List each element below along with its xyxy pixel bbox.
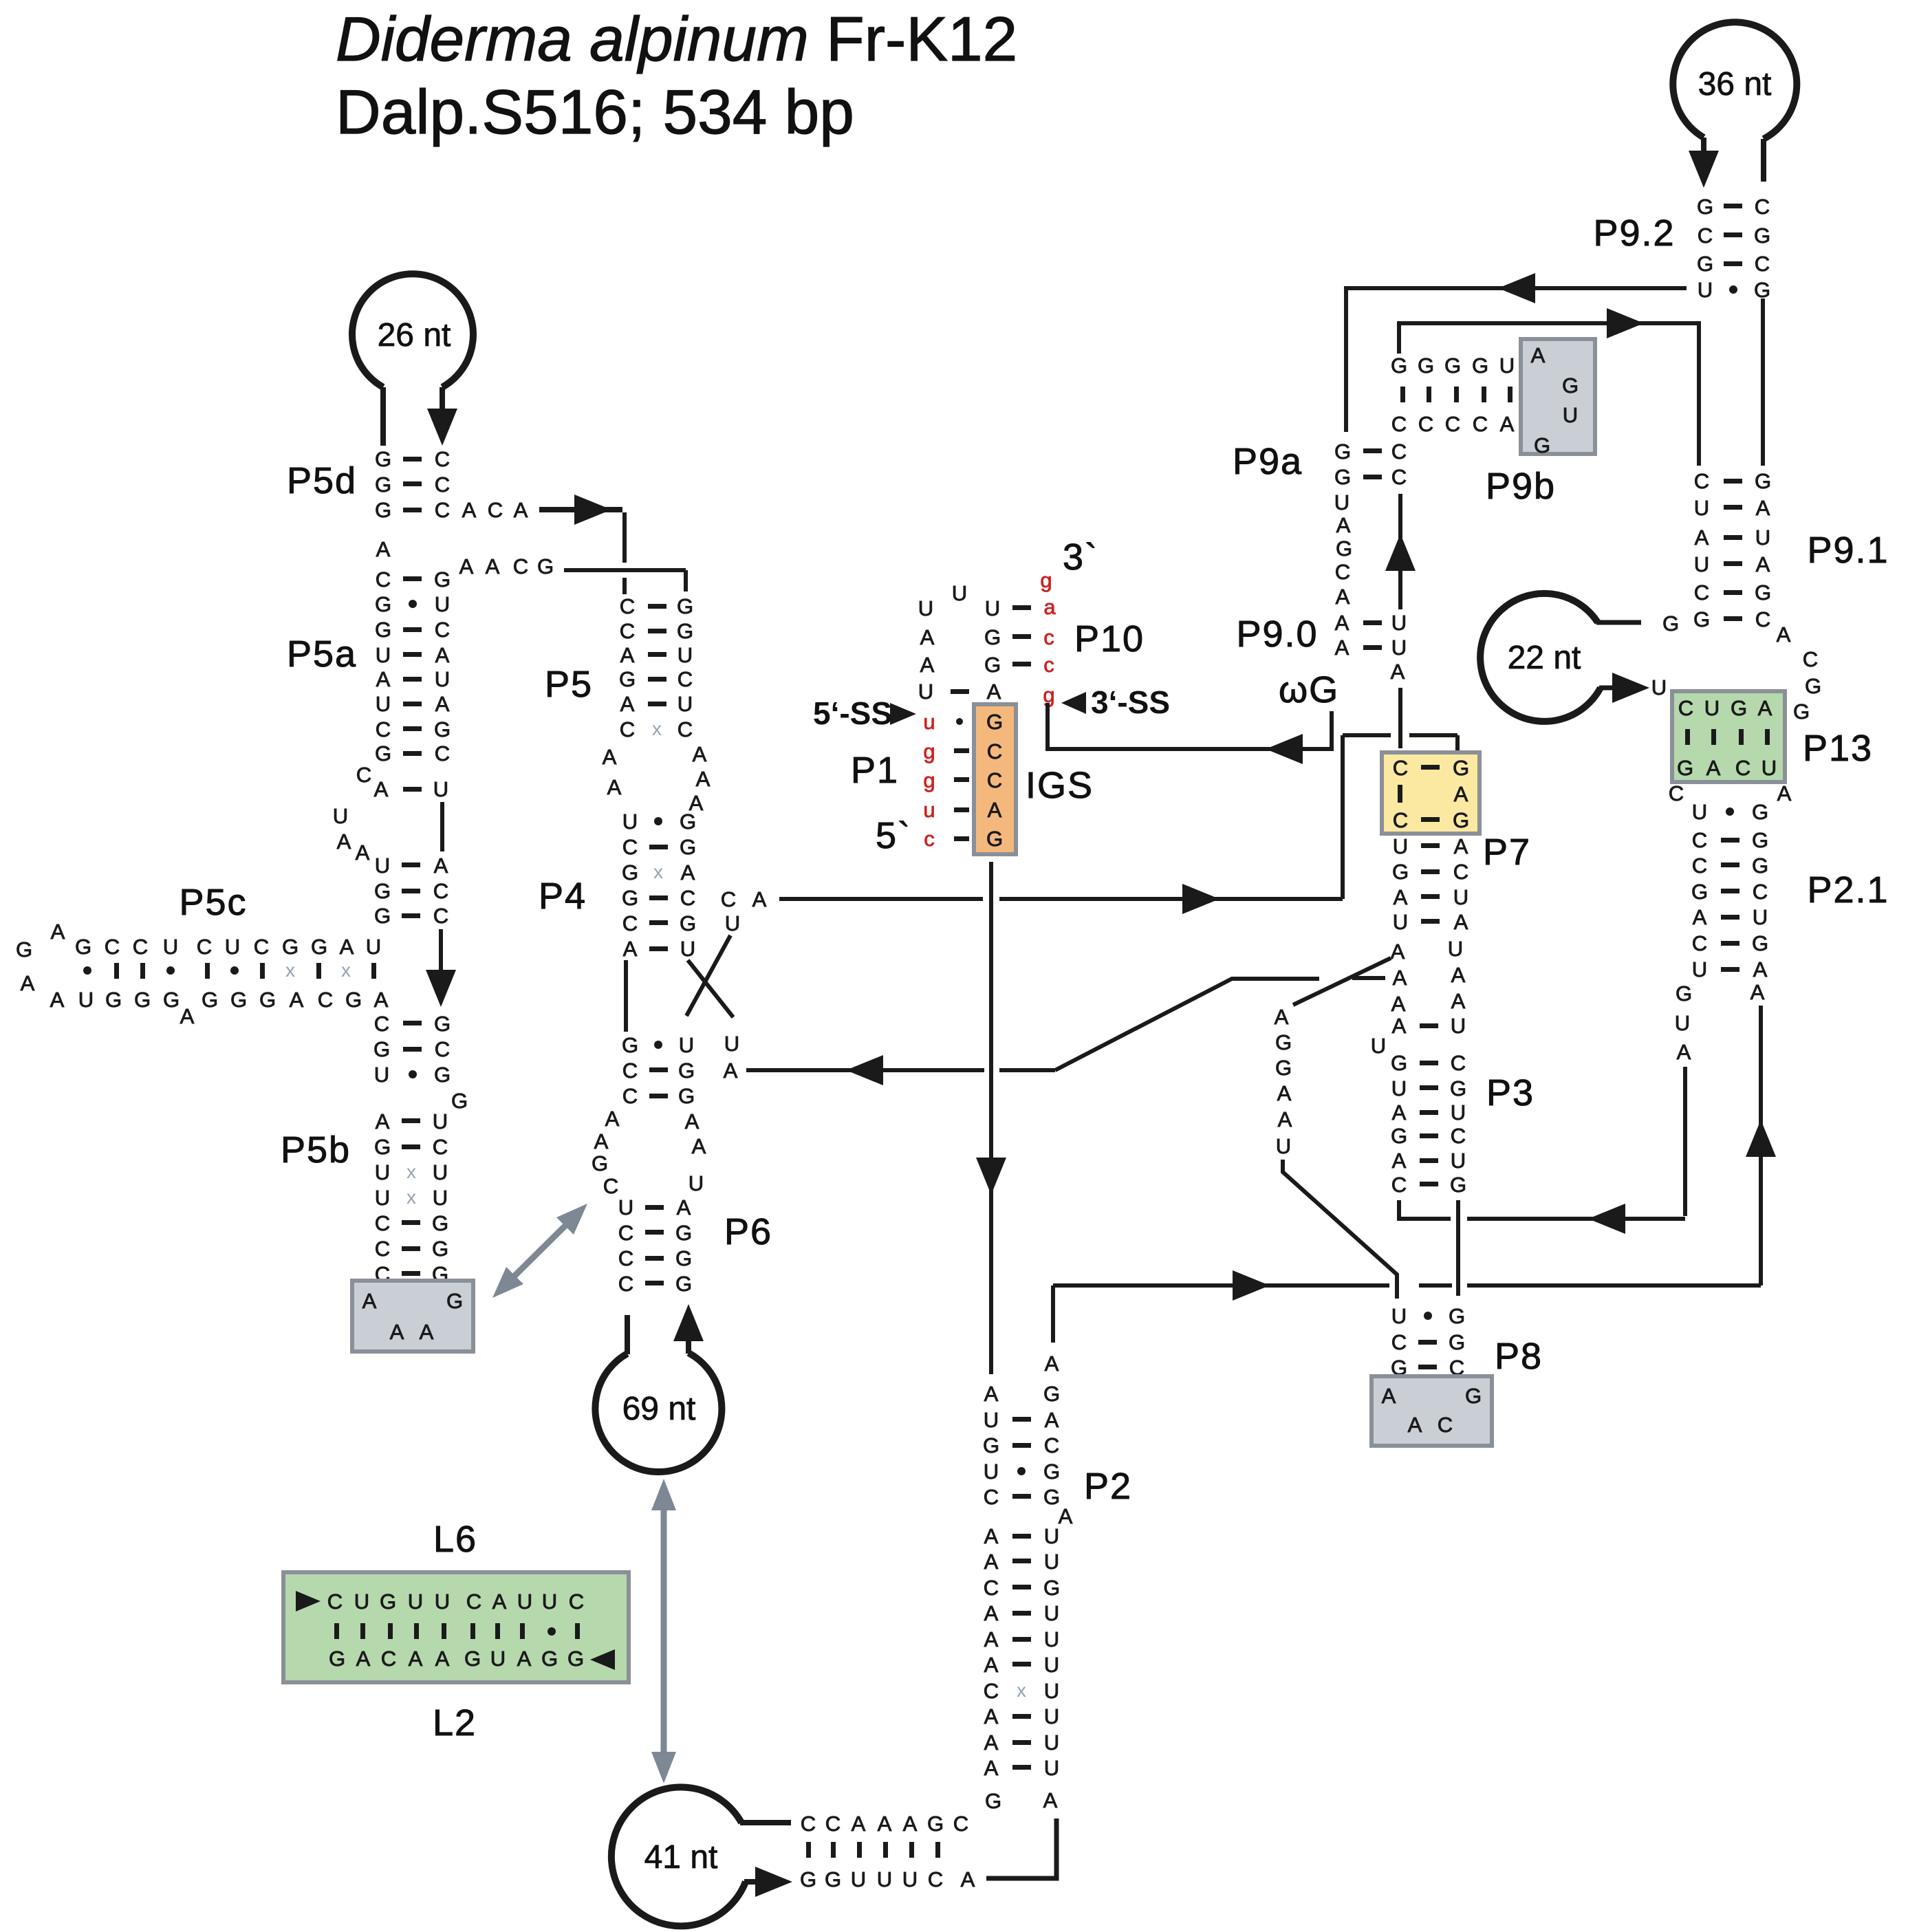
svg-text:A: A bbox=[1392, 1149, 1407, 1173]
svg-text:G: G bbox=[373, 1037, 390, 1061]
loop 26 nt bbox=[352, 274, 473, 387]
svg-text:A: A bbox=[1758, 696, 1773, 720]
svg-text:C: C bbox=[435, 473, 450, 497]
wire cascade U down to P8 bbox=[1283, 1160, 1397, 1299]
wire AACG to P5 right strand bbox=[564, 568, 686, 572]
svg-text:x: x bbox=[285, 959, 295, 981]
svg-text:a: a bbox=[1043, 595, 1056, 619]
svg-text:G: G bbox=[677, 594, 693, 618]
svg-text:A: A bbox=[1753, 957, 1768, 981]
svg-text:G: G bbox=[105, 988, 122, 1012]
svg-text:P9a: P9a bbox=[1233, 441, 1303, 482]
svg-text:A: A bbox=[920, 625, 935, 649]
green box top strand CUGUUCAUUC bbox=[327, 1589, 584, 1614]
svg-text:C: C bbox=[1753, 880, 1768, 904]
svg-text:U: U bbox=[1044, 1601, 1059, 1625]
svg-text:U: U bbox=[517, 1589, 532, 1614]
svg-text:U: U bbox=[1276, 1134, 1291, 1158]
svg-text:A: A bbox=[693, 742, 707, 766]
svg-text:U: U bbox=[1499, 354, 1515, 378]
wire P3 right strand down to P8 bbox=[1456, 1200, 1460, 1296]
svg-text:G: G bbox=[432, 1211, 448, 1235]
svg-text:G: G bbox=[986, 827, 1003, 851]
svg-text:G: G bbox=[619, 667, 636, 691]
svg-text:x: x bbox=[1017, 1680, 1026, 1701]
svg-text:C: C bbox=[1698, 224, 1713, 248]
svg-text:A: A bbox=[1336, 585, 1350, 609]
svg-text:C: C bbox=[381, 1647, 396, 1671]
svg-text:G: G bbox=[375, 498, 391, 522]
svg-text:C: C bbox=[825, 1812, 841, 1836]
svg-text:G: G bbox=[1336, 536, 1352, 561]
svg-text:A: A bbox=[356, 840, 370, 865]
svg-text:G: G bbox=[434, 717, 451, 741]
wire P9b to P9.1 bbox=[1399, 323, 1699, 466]
svg-text:C: C bbox=[618, 1221, 633, 1245]
svg-text:c: c bbox=[1043, 625, 1054, 649]
svg-text:A: A bbox=[517, 1647, 532, 1671]
small arrow in green box bbox=[296, 1591, 321, 1611]
svg-text:G: G bbox=[1677, 756, 1693, 780]
helix P4 lower bbox=[622, 1033, 695, 1108]
svg-text:G: G bbox=[1444, 354, 1461, 378]
svg-text:G: G bbox=[16, 937, 32, 962]
svg-text:A: A bbox=[420, 1320, 434, 1344]
svg-text:C: C bbox=[318, 988, 333, 1012]
svg-text:C: C bbox=[984, 1679, 999, 1703]
green box P13 bbox=[1672, 691, 1785, 782]
svg-text:P9b: P9b bbox=[1486, 466, 1556, 507]
helix P9b bottom strand CCCCA bbox=[1391, 412, 1515, 436]
helix P2 bbox=[983, 1408, 1060, 1509]
svg-text:U: U bbox=[1675, 1011, 1690, 1035]
svg-text:C: C bbox=[1391, 412, 1407, 436]
svg-text:U: U bbox=[375, 854, 390, 878]
svg-text:G: G bbox=[675, 1221, 692, 1245]
helix P5b lower bbox=[374, 1109, 448, 1286]
svg-text:G: G bbox=[464, 1647, 481, 1671]
svg-text:C: C bbox=[1803, 647, 1818, 671]
helix P5c horizontal top strand bbox=[75, 935, 381, 959]
svg-text:C: C bbox=[466, 1589, 481, 1614]
svg-text:A: A bbox=[492, 1589, 507, 1614]
svg-text:U: U bbox=[851, 1867, 866, 1891]
svg-text:A: A bbox=[961, 1867, 975, 1891]
svg-text:C: C bbox=[133, 935, 148, 959]
helix P4 bbox=[622, 810, 696, 961]
svg-text:U: U bbox=[376, 692, 391, 716]
svg-text:U: U bbox=[918, 596, 933, 620]
svg-text:A: A bbox=[984, 1730, 999, 1755]
svg-text:U: U bbox=[677, 643, 693, 667]
svg-text:G: G bbox=[374, 879, 391, 903]
svg-text:A: A bbox=[1454, 910, 1468, 934]
svg-text:U: U bbox=[376, 643, 391, 667]
svg-text:U: U bbox=[1044, 1730, 1059, 1755]
orange box IGS bbox=[974, 704, 1016, 854]
svg-text:C: C bbox=[376, 567, 391, 591]
loop 41 nt bbox=[611, 1787, 746, 1926]
svg-text:C: C bbox=[721, 887, 736, 911]
wire diagonal cascade-A to P3 top bbox=[1293, 958, 1391, 1005]
svg-text:A: A bbox=[1451, 989, 1466, 1013]
neck bottom arrow 22nt to U bbox=[1599, 686, 1618, 691]
svg-text:A: A bbox=[376, 667, 391, 691]
svg-text:G: G bbox=[1472, 354, 1488, 378]
svg-text:G: G bbox=[1697, 195, 1713, 219]
svg-text:U: U bbox=[433, 777, 448, 801]
svg-text:A: A bbox=[374, 777, 389, 801]
helix P5a lower bbox=[374, 854, 448, 928]
svg-text:G: G bbox=[1450, 1076, 1466, 1100]
svg-text:A: A bbox=[1695, 525, 1709, 550]
svg-text:U: U bbox=[375, 1160, 390, 1184]
helix P5 bbox=[619, 594, 693, 741]
svg-text:A: A bbox=[1391, 660, 1405, 684]
svg-text:69 nt: 69 nt bbox=[622, 1391, 696, 1427]
svg-text:3`: 3` bbox=[1063, 536, 1098, 578]
svg-text:A: A bbox=[435, 692, 450, 716]
svg-text:U: U bbox=[1391, 1304, 1407, 1328]
svg-text:A: A bbox=[340, 935, 354, 959]
svg-text:G: G bbox=[134, 988, 151, 1012]
svg-text:5‘-SS: 5‘-SS bbox=[813, 695, 892, 731]
wire P9.2 arrow to P9a bbox=[1346, 288, 1687, 432]
svg-text:U: U bbox=[163, 935, 178, 959]
helix P9a bbox=[1334, 439, 1407, 489]
svg-text:C: C bbox=[433, 904, 448, 928]
svg-text:A: A bbox=[1531, 343, 1546, 367]
svg-text:C: C bbox=[375, 1237, 390, 1261]
svg-text:A: A bbox=[692, 1134, 706, 1158]
svg-text:G: G bbox=[592, 1151, 608, 1175]
wire P4 CA to yellow box P7 bbox=[779, 897, 983, 901]
svg-text:G: G bbox=[825, 1867, 841, 1891]
svg-text:G: G bbox=[1693, 607, 1710, 631]
svg-text:A: A bbox=[376, 537, 391, 561]
svg-text:U: U bbox=[952, 581, 967, 605]
helix P2 lower bbox=[984, 1524, 1060, 1780]
svg-text:G: G bbox=[1676, 981, 1692, 1006]
wire P9.2 right strand down to P9.1 bbox=[1761, 299, 1765, 466]
helix P9.2 bbox=[1697, 195, 1770, 302]
svg-text:A: A bbox=[696, 767, 711, 791]
svg-text:C: C bbox=[677, 717, 693, 741]
svg-text:U: U bbox=[1044, 1704, 1059, 1728]
svg-text:A: A bbox=[1043, 1788, 1058, 1812]
svg-text:C: C bbox=[1044, 1433, 1059, 1457]
svg-text:G: G bbox=[1450, 1173, 1466, 1197]
svg-text:A: A bbox=[752, 887, 767, 911]
svg-text:5`: 5` bbox=[876, 815, 911, 856]
svg-text:U: U bbox=[1704, 696, 1720, 720]
svg-text:G: G bbox=[1453, 756, 1469, 780]
helix P5d bbox=[375, 447, 450, 522]
helix P5b upper bbox=[373, 1012, 451, 1087]
neck top line 41nt bbox=[740, 1820, 791, 1825]
svg-text:P2.1: P2.1 bbox=[1807, 869, 1889, 911]
svg-text:G: G bbox=[1334, 465, 1351, 489]
wire right strand P5a internal bbox=[440, 802, 444, 851]
svg-text:A: A bbox=[605, 1107, 620, 1131]
green box bottom strand GACAAGUAGG bbox=[329, 1647, 584, 1671]
svg-text:A: A bbox=[984, 1653, 999, 1677]
svg-text:g: g bbox=[923, 768, 935, 792]
svg-text:G: G bbox=[434, 1012, 451, 1036]
helix P3 bbox=[1391, 1014, 1466, 1197]
svg-text:A: A bbox=[435, 643, 450, 667]
svg-text:A: A bbox=[984, 1704, 999, 1728]
svg-text:x: x bbox=[406, 1186, 416, 1208]
svg-text:C: C bbox=[1755, 252, 1770, 276]
svg-text:U: U bbox=[689, 1171, 704, 1195]
svg-text:A: A bbox=[1394, 885, 1408, 909]
svg-text:G: G bbox=[75, 935, 91, 959]
svg-text:U: U bbox=[679, 1033, 694, 1057]
wire P4 A to P3 via diagonal bbox=[746, 1068, 984, 1072]
svg-text:A: A bbox=[390, 1320, 404, 1344]
svg-text:26 nt: 26 nt bbox=[378, 317, 451, 354]
svg-text:U: U bbox=[677, 692, 693, 716]
svg-text:G: G bbox=[1391, 1124, 1407, 1148]
svg-text:G: G bbox=[1755, 580, 1771, 605]
svg-text:A: A bbox=[1392, 1100, 1407, 1125]
svg-text:x: x bbox=[406, 1161, 416, 1182]
green box L6-L2 pairing bbox=[283, 1572, 629, 1682]
svg-text:C: C bbox=[435, 1037, 450, 1061]
svg-text:A: A bbox=[1392, 1014, 1407, 1038]
svg-text:A: A bbox=[376, 1109, 390, 1133]
svg-text:P9.1: P9.1 bbox=[1807, 530, 1889, 571]
svg-text:G: G bbox=[1754, 224, 1770, 248]
svg-text:G: G bbox=[1534, 433, 1550, 457]
svg-text:A: A bbox=[1391, 940, 1405, 964]
svg-text:C: C bbox=[1391, 1173, 1407, 1197]
svg-text:U: U bbox=[902, 1867, 918, 1891]
svg-text:x: x bbox=[652, 718, 662, 739]
svg-text:A: A bbox=[603, 745, 617, 769]
svg-text:U: U bbox=[618, 1195, 633, 1219]
svg-text:A: A bbox=[1756, 496, 1770, 520]
svg-text:G: G bbox=[680, 810, 696, 834]
svg-text:P2: P2 bbox=[1084, 1466, 1132, 1507]
svg-text:A: A bbox=[1278, 1107, 1292, 1131]
svg-text:A: A bbox=[51, 920, 65, 944]
svg-text:A: A bbox=[852, 1812, 866, 1836]
wire CACA arrow to P5 bbox=[539, 507, 622, 512]
svg-text:C: C bbox=[374, 1012, 389, 1036]
svg-text:U: U bbox=[1563, 403, 1578, 427]
helix P9b top strand GGGGU bbox=[1391, 354, 1515, 378]
svg-text:A: A bbox=[1391, 992, 1406, 1016]
svg-text:C: C bbox=[435, 498, 450, 522]
wire P2.1 left strand down to arrow line bbox=[1683, 1067, 1687, 1216]
svg-text:A: A bbox=[878, 1812, 892, 1836]
svg-text:U: U bbox=[1334, 490, 1349, 514]
svg-text:G: G bbox=[375, 618, 391, 642]
svg-text:Diderma alpinum Fr-K12: Diderma alpinum Fr-K12 bbox=[336, 5, 1017, 74]
svg-text:U: U bbox=[435, 1589, 450, 1614]
svg-text:G: G bbox=[986, 710, 1003, 734]
svg-text:C: C bbox=[680, 886, 695, 910]
svg-text:C: C bbox=[376, 717, 391, 741]
svg-text:C: C bbox=[622, 1084, 638, 1108]
svg-text:U: U bbox=[1044, 1679, 1059, 1703]
svg-text:C: C bbox=[197, 935, 212, 959]
svg-text:G: G bbox=[1391, 354, 1407, 378]
svg-text:U: U bbox=[1692, 957, 1707, 981]
svg-text:G: G bbox=[1752, 931, 1768, 955]
svg-text:G: G bbox=[1275, 1030, 1292, 1054]
svg-text:G: G bbox=[202, 988, 218, 1012]
svg-text:C: C bbox=[1694, 580, 1709, 605]
wire A into yellow box bbox=[1398, 688, 1402, 748]
svg-text:G: G bbox=[984, 625, 1001, 649]
svg-text:C: C bbox=[622, 835, 638, 859]
svg-text:U: U bbox=[1393, 910, 1408, 934]
wire arrow down into P5b bbox=[439, 929, 443, 999]
svg-text:A: A bbox=[984, 1756, 999, 1780]
helix P2 base bottom strand GGUUUCA bbox=[800, 1867, 975, 1891]
leg right of 26nt loop with arrow bbox=[440, 387, 445, 413]
svg-text:G: G bbox=[1752, 854, 1768, 878]
helix P2 base top strand CCAAAGC bbox=[801, 1812, 968, 1836]
svg-text:U: U bbox=[1391, 611, 1407, 635]
svg-text:C: C bbox=[620, 594, 635, 618]
svg-text:U: U bbox=[1044, 1756, 1059, 1780]
P13 bottom strand GACU bbox=[1677, 756, 1777, 780]
svg-text:U: U bbox=[1692, 800, 1707, 824]
svg-text:C: C bbox=[1418, 412, 1433, 436]
svg-text:A: A bbox=[374, 988, 389, 1012]
svg-text:P5d: P5d bbox=[287, 460, 357, 501]
svg-text:C: C bbox=[435, 618, 450, 642]
svg-text:G: G bbox=[282, 935, 299, 959]
svg-text:U: U bbox=[1453, 885, 1468, 909]
svg-text:C: C bbox=[1391, 465, 1407, 489]
gray box P9b loop AGUG bbox=[1521, 339, 1595, 454]
svg-text:P6: P6 bbox=[724, 1211, 772, 1252]
svg-text:C: C bbox=[1393, 756, 1408, 780]
svg-text:P13: P13 bbox=[1803, 728, 1873, 769]
yellow box P7 conserved pair bbox=[1382, 752, 1479, 834]
gray double arrow 69nt to 41nt bbox=[661, 1499, 667, 1763]
svg-text:A: A bbox=[984, 1382, 999, 1406]
svg-text:U: U bbox=[1694, 496, 1709, 520]
helix P6 bbox=[618, 1195, 692, 1296]
svg-text:P9.2: P9.2 bbox=[1593, 213, 1675, 254]
svg-text:A: A bbox=[987, 680, 1001, 704]
svg-text:G: G bbox=[1043, 1459, 1060, 1484]
svg-text:U: U bbox=[984, 1459, 999, 1484]
svg-text:22 nt: 22 nt bbox=[1508, 640, 1581, 676]
svg-text:C: C bbox=[327, 1589, 343, 1614]
svg-text:36 nt: 36 nt bbox=[1698, 66, 1772, 102]
svg-text:A: A bbox=[1706, 756, 1721, 780]
svg-text:A: A bbox=[1335, 636, 1349, 660]
svg-text:A: A bbox=[681, 860, 695, 884]
svg-text:C: C bbox=[1694, 469, 1709, 493]
svg-text:G: G bbox=[375, 473, 391, 497]
svg-text:L2: L2 bbox=[433, 1702, 477, 1744]
svg-text:C: C bbox=[1692, 931, 1707, 955]
svg-text:G: G bbox=[1392, 860, 1409, 884]
svg-text:C: C bbox=[1678, 696, 1693, 720]
svg-text:x: x bbox=[653, 861, 663, 882]
svg-text:C: C bbox=[254, 935, 269, 959]
helix P5a bbox=[375, 567, 451, 766]
svg-text:U: U bbox=[435, 592, 450, 616]
svg-text:U: U bbox=[680, 937, 695, 961]
svg-text:A: A bbox=[337, 829, 351, 854]
helix P5c bonds bbox=[83, 959, 376, 981]
svg-text:A: A bbox=[903, 1812, 918, 1836]
svg-text:A: A bbox=[984, 1524, 999, 1548]
wire P9.0 right strand up arrow bbox=[1398, 494, 1402, 609]
svg-text:G: G bbox=[1752, 828, 1768, 852]
svg-text:P3: P3 bbox=[1486, 1072, 1535, 1114]
svg-text:G: G bbox=[678, 1084, 695, 1108]
svg-text:C: C bbox=[618, 1246, 633, 1270]
svg-text:A: A bbox=[685, 1109, 700, 1133]
small left arrow in green box bbox=[590, 1649, 615, 1670]
svg-text:A: A bbox=[180, 1004, 195, 1028]
svg-text:U: U bbox=[1698, 278, 1713, 302]
svg-text:A: A bbox=[620, 692, 635, 716]
svg-text:G: G bbox=[1449, 1330, 1465, 1354]
svg-text:A: A bbox=[459, 554, 474, 578]
svg-text:U: U bbox=[985, 596, 1000, 620]
svg-text:A: A bbox=[50, 988, 65, 1012]
svg-text:C: C bbox=[622, 1059, 638, 1083]
svg-text:C: C bbox=[622, 911, 638, 935]
svg-text:C: C bbox=[987, 768, 1002, 792]
svg-text:U: U bbox=[1755, 525, 1770, 550]
svg-text:C: C bbox=[1735, 756, 1750, 780]
svg-text:C: C bbox=[1755, 607, 1770, 631]
svg-text:P5b: P5b bbox=[281, 1129, 351, 1171]
svg-text:c: c bbox=[924, 827, 935, 851]
svg-text:U: U bbox=[1044, 1524, 1059, 1548]
svg-text:A: A bbox=[1045, 1408, 1059, 1432]
svg-text:G: G bbox=[675, 1246, 692, 1270]
svg-text:U: U bbox=[1391, 1076, 1407, 1100]
svg-text:A: A bbox=[409, 1647, 423, 1671]
svg-text:U: U bbox=[375, 1186, 390, 1210]
svg-text:P5c: P5c bbox=[179, 882, 247, 923]
svg-text:G: G bbox=[311, 935, 327, 959]
svg-text:G: G bbox=[345, 988, 362, 1012]
svg-text:P8: P8 bbox=[1495, 1336, 1543, 1377]
svg-text:U: U bbox=[724, 1032, 739, 1056]
svg-text:G: G bbox=[1562, 373, 1579, 398]
svg-text:G: G bbox=[1755, 469, 1771, 493]
svg-text:P7: P7 bbox=[1483, 832, 1531, 873]
leg right 69nt to P6 with up arrow bbox=[686, 1315, 691, 1354]
svg-text:A: A bbox=[724, 1059, 738, 1083]
svg-text:G: G bbox=[1731, 696, 1747, 720]
wire P3 left strand elbow to P2.1 line bbox=[1399, 1200, 1451, 1219]
leg right 36nt bbox=[1761, 139, 1766, 182]
svg-text:A: A bbox=[1777, 622, 1791, 647]
helix P8 bbox=[1391, 1304, 1465, 1380]
svg-text:G: G bbox=[374, 904, 391, 928]
svg-text:G: G bbox=[1043, 1382, 1060, 1406]
svg-text:G: G bbox=[230, 988, 247, 1012]
svg-text:A: A bbox=[1059, 1504, 1073, 1528]
svg-text:G: G bbox=[1691, 880, 1708, 904]
svg-text:A: A bbox=[1677, 1040, 1691, 1064]
